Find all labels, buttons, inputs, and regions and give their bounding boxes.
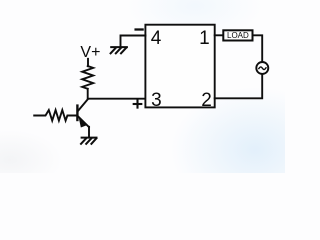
svg-text:4: 4	[151, 28, 162, 49]
wire: AC source to IC pin 2	[215, 74, 263, 98]
svg-text:1: 1	[199, 28, 210, 49]
resistor R2 (collector load, vertical zigzag)	[82, 66, 93, 89]
label − (minus) at pin 4	[136, 28, 143, 30]
wire: R2 bottom lead to collector node	[87, 89, 89, 99]
wire: V+ stub to R2 top	[87, 59, 89, 66]
ground (emitter, chassis style)	[81, 138, 97, 144]
LOAD box	[223, 30, 252, 40]
wire: IC pin 4 to ground	[121, 36, 146, 47]
svg-text:2: 2	[201, 90, 212, 111]
svg-text:V+: V+	[80, 44, 100, 61]
wire: IC pin 1 to LOAD	[215, 34, 223, 36]
svg-text:LOAD: LOAD	[227, 31, 249, 40]
wire: collector node to IC pin 3	[88, 98, 145, 100]
svg-text:3: 3	[151, 90, 162, 111]
transistor Q1 (NPN): base bar	[76, 106, 78, 120]
wire: LOAD to AC source	[253, 35, 262, 61]
label + (plus) at pin 3 input	[134, 100, 142, 107]
transistor Q1: collector diagonal	[78, 99, 88, 111]
resistor R1 (base input, horizontal zigzag with leads)	[34, 110, 76, 121]
op-amp / IC U1 (body)	[145, 25, 214, 108]
wire: emitter to ground	[88, 127, 90, 138]
AC source SRC1 (circle)	[256, 62, 268, 74]
AC source SRC1 (sine symbol)	[259, 67, 266, 70]
transistor Q1: emitter diagonal	[78, 116, 89, 127]
ground (pin 4, chassis style)	[111, 47, 127, 53]
transistor Q1: emitter arrowhead	[80, 119, 86, 127]
